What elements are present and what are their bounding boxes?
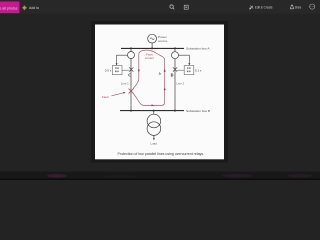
bus A [121, 47, 184, 49]
wire relay R1 trip to breaker C [122, 69, 129, 71]
wire relay R2 trip to breaker D [177, 69, 184, 71]
relay R1 [112, 66, 122, 75]
edit-create icon [250, 6, 254, 10]
node bus B / line 2 [174, 110, 176, 112]
breaker C [129, 67, 133, 71]
fault marker [129, 89, 134, 94]
app background [0, 0, 320, 180]
wire CT1 to relay R1 [117, 55, 128, 63]
CT1 current transformer [128, 52, 135, 59]
book page [95, 25, 224, 160]
svg-text:Fault: Fault [102, 95, 109, 99]
bus B [120, 110, 184, 112]
svg-text:Edit & Create: Edit & Create [255, 6, 273, 10]
wire source to bus A [151, 43, 153, 48]
fault current arrow down (line 1 side) [138, 70, 140, 73]
wire transformer to load [153, 135, 155, 138]
fault label arrow [112, 93, 124, 96]
bottom taskbar strip [0, 172, 320, 181]
fault current arrow right (bottom) [152, 104, 155, 106]
slideshow icon [184, 5, 188, 9]
transformer T1 [147, 114, 161, 135]
svg-text:Line 2: Line 2 [176, 82, 184, 86]
node bus A / line 2 [174, 47, 176, 49]
svg-text:e all photos: e all photos [0, 6, 18, 10]
svg-text:Substation bus A: Substation bus A [186, 47, 210, 51]
see-all-photos accent button [0, 2, 20, 14]
wire Line 1 [130, 48, 132, 110]
svg-text:C: C [128, 72, 131, 77]
svg-text:Add to: Add to [29, 6, 39, 10]
svg-text:Share: Share [295, 5, 302, 9]
svg-text:Line 1: Line 1 [121, 81, 129, 85]
fault current arrow up (line 2 side) [164, 87, 166, 90]
node bus B / transformer [153, 110, 155, 112]
svg-text:0.5 s: 0.5 s [105, 68, 112, 72]
wire bus B to transformer T1 [153, 111, 155, 115]
svg-text:Substation bus B: Substation bus B [186, 109, 210, 113]
fault current arrow up (line 2 side, upper) [164, 69, 166, 72]
svg-text:D: D [170, 73, 173, 78]
node bus A / source [151, 47, 153, 49]
relay R2 [184, 66, 194, 75]
svg-text:source: source [158, 39, 168, 43]
svg-text:0.1 s: 0.1 s [195, 68, 202, 72]
toolbar background [0, 0, 320, 14]
node bus B / line 1 [130, 110, 132, 112]
power source G1 [148, 34, 157, 43]
share icon [290, 5, 293, 9]
node bus A / line 1 [130, 47, 132, 49]
CT2 current transformer [172, 52, 179, 59]
breaker D [173, 67, 177, 71]
wire CT2 to relay R2 [179, 55, 190, 63]
fault current loop [133, 50, 165, 105]
zoom icon [170, 5, 174, 10]
svg-text:Protection of two parallel lin: Protection of two parallel lines using o… [118, 152, 205, 156]
wire Line 2 [174, 48, 176, 110]
svg-text:current: current [145, 56, 155, 60]
svg-text:Load: Load [150, 141, 157, 145]
add-to icon [22, 6, 26, 10]
more circle icon [310, 4, 315, 9]
page shadow [91, 21, 228, 163]
